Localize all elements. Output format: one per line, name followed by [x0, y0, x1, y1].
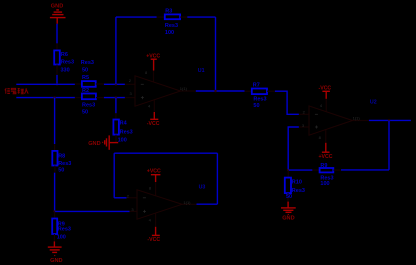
svg-text:GND: GND	[88, 141, 100, 147]
power +VCC of U1	[146, 54, 160, 71]
node input bus bottom	[53, 96, 55, 98]
op-amp U3	[127, 182, 197, 227]
resistor R4	[113, 113, 132, 143]
power -VCC of U2	[319, 86, 332, 99]
power -VCC of U1	[147, 112, 160, 127]
wire R2 to U1 non-inverting input	[104, 97, 125, 99]
wire junction to R11	[288, 169, 312, 171]
svg-text:GND: GND	[51, 4, 63, 10]
svg-text:1(1): 1(1)	[183, 200, 191, 205]
node input bus top	[56, 83, 58, 85]
wire U3 feedback top	[114, 152, 217, 154]
power -VCC of U3	[147, 227, 160, 243]
wire input bus top	[16, 83, 75, 85]
svg-text:100: 100	[57, 235, 66, 241]
wire U3 feedback left vertical	[113, 153, 115, 198]
wire U3 output	[197, 203, 218, 205]
svg-text:50: 50	[253, 103, 259, 109]
node U1 inverting input	[115, 83, 117, 85]
svg-text:+VCC: +VCC	[147, 169, 161, 175]
wire U2 non-inverting input down	[288, 127, 299, 170]
svg-text:R8: R8	[58, 154, 65, 160]
wire U1 feedback left vertical	[115, 17, 117, 84]
svg-text:1(1): 1(1)	[180, 86, 188, 91]
resistor R6	[54, 43, 74, 75]
svg-text:+VCC: +VCC	[319, 154, 333, 160]
svg-text:Res3: Res3	[61, 59, 74, 65]
svg-text:100: 100	[320, 181, 329, 187]
wire U1 feedback top right	[187, 16, 215, 18]
svg-text:Res3: Res3	[58, 227, 71, 233]
svg-text:50: 50	[58, 167, 64, 173]
svg-text:R4: R4	[120, 120, 128, 126]
node U1 output feedback junction	[214, 90, 216, 92]
ground GND under R9	[48, 241, 63, 263]
resistor R9 to ground	[52, 211, 71, 241]
wire U2 feedback right vertical	[388, 120, 390, 169]
svg-text:U2: U2	[370, 99, 377, 105]
resistor R3	[157, 9, 188, 36]
resistor R10	[285, 170, 305, 202]
wire U1 plus input down to R4	[115, 98, 117, 114]
svg-text:50: 50	[286, 194, 292, 200]
svg-text:U3: U3	[199, 185, 206, 191]
wire R6 to input bus	[56, 75, 58, 84]
svg-text:Res3: Res3	[120, 130, 133, 136]
wire U1 feedback top left	[116, 16, 157, 18]
wire U2 output	[369, 119, 411, 121]
label signal input (Chinese characters drawn as strokes)	[5, 88, 28, 94]
svg-text:Res3: Res3	[253, 96, 266, 102]
ground GND top-left power port	[50, 4, 66, 24]
wire U1 feedback right vertical	[215, 17, 217, 91]
svg-text:GND: GND	[50, 258, 62, 264]
node R8 R9 junction	[53, 210, 55, 212]
node R10 R11 junction	[287, 169, 289, 171]
resistor R2	[75, 88, 104, 116]
wire U2 feedback bottom	[341, 169, 389, 171]
wire R8 to plus bus	[54, 173, 56, 212]
svg-text:R10: R10	[292, 179, 302, 185]
wire R5 to U1 inverting input	[104, 83, 125, 85]
svg-text:U1: U1	[198, 68, 205, 74]
svg-text:-VCC: -VCC	[147, 121, 160, 127]
resistor R5	[75, 60, 104, 87]
svg-text:50: 50	[82, 67, 88, 73]
svg-text:Res3: Res3	[165, 23, 178, 29]
resistor R7	[245, 83, 275, 109]
svg-text:100: 100	[165, 30, 174, 36]
svg-text:100: 100	[118, 137, 127, 143]
power +VCC of U2	[319, 143, 333, 160]
wire U3 inverting input	[114, 197, 126, 199]
resistor R9 feedback	[312, 163, 341, 187]
wire input bus bottom	[16, 97, 75, 99]
svg-text:Res3: Res3	[58, 161, 71, 167]
svg-text:1(1): 1(1)	[353, 116, 361, 121]
wire R7 to U2 inverting input	[275, 91, 299, 114]
ground GND under R10	[281, 202, 296, 222]
svg-text:Res3: Res3	[292, 188, 305, 194]
svg-text:R5: R5	[82, 75, 89, 81]
svg-text:Res3: Res3	[81, 60, 94, 66]
wire U3 feedback right vertical	[216, 153, 218, 204]
svg-text:Res3: Res3	[82, 103, 95, 109]
svg-text:GND: GND	[282, 216, 294, 222]
op-amp U2	[299, 99, 369, 143]
wire U3 non-inverting input	[55, 210, 130, 212]
svg-text:R6: R6	[61, 52, 68, 58]
ground GND sideways port at R4	[88, 135, 118, 149]
power +VCC of U3	[147, 169, 161, 182]
svg-text:330: 330	[61, 68, 70, 74]
svg-text:-VCC: -VCC	[147, 237, 160, 243]
wire ground to R6	[56, 24, 58, 44]
resistor R8	[52, 98, 71, 174]
node U2 output feedback junction	[388, 119, 390, 121]
wire U1 output	[196, 90, 245, 92]
node U1 non-inverting input	[115, 96, 117, 98]
svg-text:50: 50	[82, 110, 88, 116]
op-amp U1	[125, 70, 196, 112]
